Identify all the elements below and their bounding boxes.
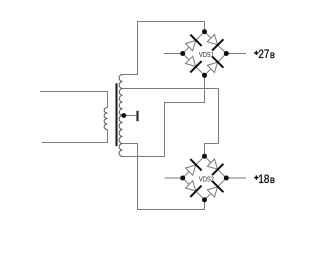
diode VDS2.3 bottom-left arm (anode left node, cathode bottom node) [186,181,196,191]
bridge rectifier VDS1 diamond outline [183,32,227,76]
svg-text:VDS2: VDS2 [199,176,214,183]
wire secondary top lead up and over to VDS1 top node [123,22,205,75]
diode VDS2.1 top-left arm (anode left node, cathode top node) [186,165,196,175]
transformer T1 primary winding (4 turns) [104,108,107,130]
node VDS1 top junction dot [202,29,207,34]
transformer T1 secondary winding section 3 (center tap to tap 3) [119,116,122,144]
transformer T1 secondary winding section 4 (tap 3 to bottom lead) [119,144,122,157]
label +18V plus sign [254,177,258,179]
node VDS2 top junction dot [202,154,207,159]
node VDS1 bottom junction dot [202,73,207,78]
node VDS2 right junction dot [224,176,229,181]
transformer T1 secondary winding section 2 (tap 2 to center tap) [119,89,122,116]
node center tap junction dot [121,113,126,118]
transformer T1 core bar [116,83,118,146]
label +27V plus sign [254,52,258,54]
diode VDS1.1 top-left arm (anode left node, cathode top node) [186,41,196,51]
wire VDS2 right node lead to +18V terminal [226,177,246,179]
node VDS2 bottom junction dot [202,197,207,202]
node VDS1 left junction dot [180,51,185,56]
chassis terminal bar [136,111,138,121]
transformer T1 secondary winding section 1 (top lead to tap 2) [119,75,122,89]
svg-text:27: 27 [258,47,269,61]
diode VDS1.2 top-right arm (anode top node, cathode right node) [207,35,217,45]
diode VDS2.2 top-right arm (anode top node, cathode right node) [207,159,217,169]
diode VDS1.4 bottom-right arm (anode bottom node, cathode right node) [207,62,217,72]
svg-text:в: в [270,50,275,61]
node VDS1 right junction dot [224,51,229,56]
diode VDS2.4 bottom-right arm (anode bottom node, cathode right node) [207,187,217,197]
wire secondary tap 2 across and down to VDS2 top node [123,89,219,157]
transformer T1 primary top lead [40,92,108,108]
bridge rectifier VDS2 diamond outline [183,156,227,200]
wire VDS2 left node stub [165,177,183,179]
svg-text:18: 18 [258,172,269,186]
wire secondary center tap to chassis terminal [123,115,137,117]
wire secondary tap 3 down and across to VDS2 bottom node [123,144,205,210]
wire VDS1 right node lead to +27V terminal [226,53,246,55]
svg-text:в: в [270,175,275,186]
svg-text:VDS1: VDS1 [199,52,214,59]
diode VDS1.3 bottom-left arm (anode left node, cathode bottom node) [186,56,196,66]
node VDS2 left junction dot [180,176,185,181]
transformer T1 primary bottom lead [42,130,108,143]
wire secondary bottom lead up to VDS1 bottom node [123,75,205,156]
wire VDS1 left node stub [164,53,183,55]
